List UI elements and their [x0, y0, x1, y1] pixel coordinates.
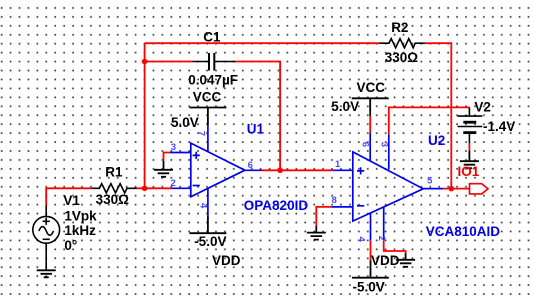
wire V2 to ground — [468, 143, 470, 151]
wire top to R2 — [145, 42, 379, 44]
svg-text:4: 4 — [198, 203, 209, 209]
capacitor C1 — [193, 53, 236, 71]
ground at U1 pin3 — [154, 161, 173, 177]
svg-text:3: 3 — [171, 142, 176, 153]
svg-text:V1: V1 — [63, 193, 80, 208]
wire U2 pin4 supply — [370, 241, 372, 261]
svg-text:1Vpk: 1Vpk — [64, 209, 97, 224]
svg-text:5.0V: 5.0V — [331, 99, 359, 114]
svg-text:330Ω: 330Ω — [385, 50, 419, 65]
svg-text:1kHz: 1kHz — [64, 223, 96, 238]
svg-text:U2: U2 — [428, 133, 445, 148]
VDD rail U2 — [352, 261, 389, 278]
svg-text:3: 3 — [379, 142, 390, 147]
resistor R2 — [379, 39, 425, 48]
svg-text:5.0V: 5.0V — [171, 115, 199, 130]
op-amp U1 — [170, 125, 262, 215]
svg-text:R2: R2 — [391, 20, 408, 35]
wire input node vertical — [144, 43, 146, 188]
wire U2 output to IO1 — [443, 188, 470, 190]
amplifier U2 — [332, 133, 443, 241]
wire to C1 left — [145, 61, 193, 63]
junction input node bottom — [142, 186, 148, 192]
svg-text:2: 2 — [376, 236, 387, 241]
ground at U2 pin2 — [396, 253, 415, 267]
svg-text:VCA810AID: VCA810AID — [426, 224, 501, 239]
connector IO1 — [470, 184, 489, 194]
svg-text:IO1: IO1 — [458, 164, 480, 179]
svg-text:0°: 0° — [64, 238, 77, 253]
wire C1 right to U1 output node — [236, 62, 281, 171]
wire U1 pin3 to ground — [164, 153, 171, 161]
ground below V1 — [37, 270, 56, 277]
svg-text:VCC: VCC — [193, 89, 222, 104]
resistor R1 — [92, 184, 137, 193]
junction input node top — [142, 59, 148, 65]
wire V1 to R1 — [46, 188, 91, 205]
VCC rail U1 — [189, 108, 226, 126]
wire U1 output to U2 pin1 — [262, 169, 333, 171]
svg-text:2: 2 — [171, 178, 176, 189]
wire R1 to U1 pin2 — [137, 187, 172, 189]
svg-text:0.047µF: 0.047µF — [188, 73, 238, 88]
ground at U2 pin8 — [307, 226, 326, 240]
svg-text:-5.0V: -5.0V — [353, 279, 385, 294]
svg-text:330Ω: 330Ω — [96, 192, 130, 207]
wire R2 to output node — [425, 43, 451, 188]
VCC rail U2 — [352, 98, 389, 115]
svg-text:7: 7 — [196, 131, 207, 136]
svg-text:VCC: VCC — [357, 80, 386, 95]
wire U2 pin3 to V2 — [389, 107, 470, 134]
wire U2 pin2 to ground — [384, 241, 406, 254]
svg-text:6: 6 — [360, 142, 371, 147]
VDD rail U1 — [189, 215, 226, 233]
svg-text:-5.0V: -5.0V — [194, 234, 226, 249]
junction U1 output node — [277, 168, 283, 174]
svg-text:R1: R1 — [105, 164, 123, 179]
svg-text:VDD: VDD — [212, 253, 241, 268]
svg-text:-1.4V: -1.4V — [483, 119, 515, 134]
svg-text:8: 8 — [332, 195, 337, 206]
wire U2 pin6 supply — [369, 116, 371, 133]
svg-text:1: 1 — [335, 159, 341, 170]
svg-text:U1: U1 — [247, 122, 265, 137]
svg-text:6: 6 — [248, 160, 253, 171]
junction output node — [449, 186, 455, 192]
svg-text:V2: V2 — [474, 99, 491, 114]
battery V2 — [458, 107, 483, 143]
svg-text:OPA820ID: OPA820ID — [244, 198, 309, 213]
source V1 — [33, 205, 60, 270]
wire U2 pin8 to ground — [316, 207, 332, 226]
ground below V2 — [460, 151, 479, 169]
svg-text:VDD: VDD — [371, 253, 400, 268]
svg-text:5: 5 — [427, 175, 433, 186]
svg-text:4: 4 — [355, 236, 366, 242]
svg-text:C1: C1 — [203, 29, 221, 44]
